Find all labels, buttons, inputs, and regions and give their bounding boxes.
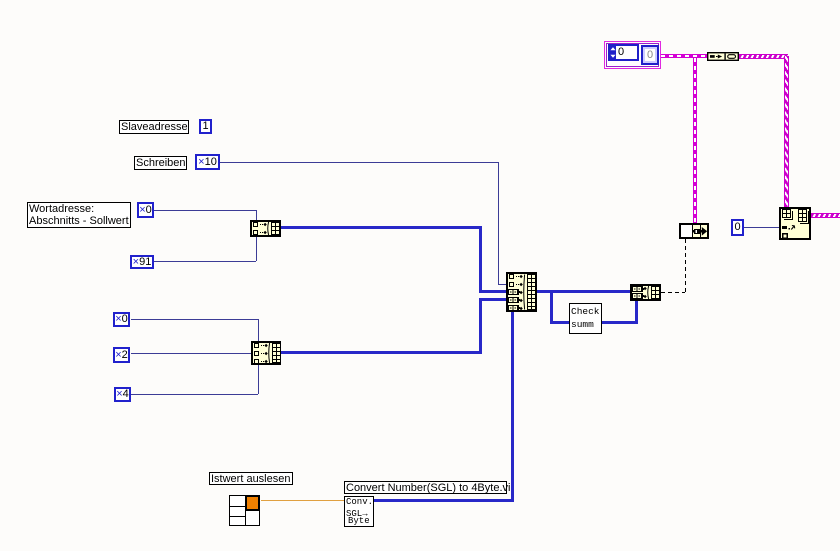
constant 0 right [731, 219, 744, 236]
constant x0 lower [113, 312, 130, 327]
build array 1 (2 scalar inputs) [250, 220, 281, 237]
wire build array 2 out (thick) [281, 351, 481, 354]
label Istwert auslesen [209, 472, 293, 485]
wire 0 to big node [744, 227, 779, 228]
label Convert Number(SGL) to 4Byte.vi [344, 481, 507, 494]
wire x2 to build array 2 [131, 353, 251, 354]
constant x91 [130, 255, 154, 269]
constant x4 [114, 387, 131, 402]
wire x0b to build array 2 [131, 319, 258, 320]
conv subvi node [344, 496, 374, 527]
cluster control (array of cluster) top [604, 41, 661, 69]
wire branch down to checksumm (thick) [550, 290, 553, 324]
element numeric (grey 0) [641, 45, 659, 65]
constant x0 upper [137, 202, 154, 218]
wire x4 to build array 2 [131, 394, 258, 395]
big node (bundle cluster) [779, 207, 811, 240]
constant x10 [195, 154, 220, 170]
pink dashed vertical down to write node [693, 58, 697, 223]
constant 1 (U8) [199, 119, 212, 134]
dashed wire node2 to write node [661, 292, 685, 293]
wire middle bottom to conv (thick) [511, 312, 514, 502]
build array node2 (2 array inputs) [630, 284, 661, 301]
label Schreiben [134, 156, 187, 170]
label Check summ [569, 303, 602, 334]
pink dashed wire cluster to array-to-cluster [661, 54, 707, 58]
build array middle (2 scalar + 3 array inputs) [506, 272, 537, 312]
orange wire to conv [261, 500, 344, 501]
write/cast node [679, 223, 709, 239]
wire build array 1 out (thick array wire) [281, 226, 481, 229]
wire middle out to node2 (thick) [537, 290, 631, 293]
wire x10 to middle build array row2 [220, 162, 498, 163]
scroll strip [607, 62, 640, 66]
label Slaveadresse [119, 120, 189, 134]
pink hatched out of big node right [811, 213, 840, 218]
wire x91 to build array 1 [154, 261, 256, 262]
label Wortadresse [27, 202, 131, 228]
build array 2 (3 scalar inputs) [251, 341, 281, 365]
constant x2 [113, 347, 130, 363]
pink hatched wire a2c out [739, 54, 788, 59]
array to cluster node [707, 52, 739, 61]
wire x0 to build array 1 [154, 210, 256, 211]
cluster constant with orange element [229, 495, 261, 527]
numeric index control [608, 44, 639, 61]
